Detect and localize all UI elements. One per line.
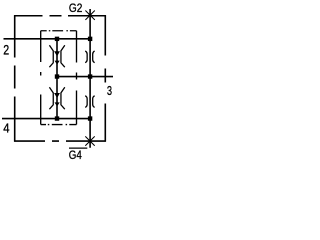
G4 overline wire: [69, 147, 87, 149]
junction dot rail3/middle: [55, 74, 59, 78]
air gap electrode arcs lower pair: [85, 96, 94, 108]
spark gap GP1 envelope right: [61, 45, 65, 67]
junction dot rail2/right branch: [88, 37, 92, 41]
package outline bottom edge (long-dash): [14, 140, 106, 142]
spark gap GP2 envelope right: [61, 87, 65, 109]
svg-text:4: 4: [3, 120, 9, 135]
wire right branch vertical (G2 to G4): [89, 9, 91, 148]
junction dot rail3/right branch: [88, 74, 92, 78]
wire pin 3 rail (y=76): [57, 76, 113, 78]
wire pin 4 rail (y=118): [2, 118, 90, 120]
package outline left edge (long-dash): [14, 15, 16, 142]
GDT envelope dash-dot box: [41, 30, 77, 32]
no-connect X at G2: [85, 10, 94, 19]
air gap electrode arcs upper pair: [85, 51, 94, 63]
wire middle branch vertical: [56, 39, 58, 119]
spark gap GP1 arrow lower: [55, 61, 60, 65]
spark gap GP2 arrow upper: [54, 93, 60, 98]
spark gap GP2 arrow lower: [55, 102, 60, 106]
package outline top edge (long-dash): [14, 15, 106, 17]
spark gap GP1 envelope left: [49, 45, 53, 67]
spark gap GP2 envelope left: [49, 87, 53, 109]
svg-text:G4: G4: [69, 149, 82, 162]
svg-text:3: 3: [107, 85, 112, 99]
package outline right edge (long-dash): [104, 15, 106, 142]
spark gap GP1 arrow upper: [54, 51, 60, 56]
svg-text:G2: G2: [69, 2, 82, 15]
junction dot rail2/middle: [55, 37, 59, 41]
wire pin 2 rail (y=38): [4, 38, 91, 40]
junction dot rail4/right branch: [88, 116, 92, 120]
junction dot rail4/middle: [55, 116, 59, 120]
svg-text:2: 2: [3, 42, 9, 58]
no-connect X at G4: [85, 136, 94, 145]
